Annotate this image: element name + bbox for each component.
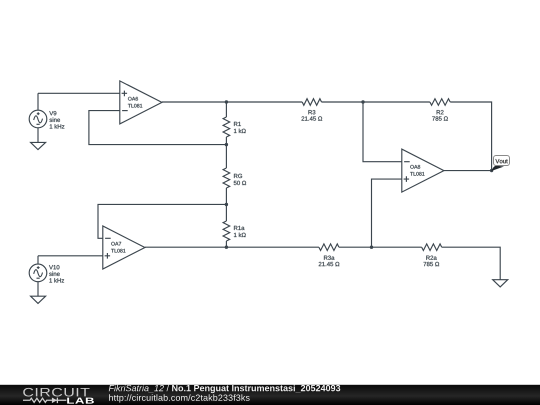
label R2 785 Ohm xyxy=(432,110,448,121)
op-amp OA7 xyxy=(103,226,145,269)
wire node R3-R2 down to OA8 inverting input xyxy=(363,102,402,162)
CircuitLab logo xyxy=(23,388,94,404)
wire R3a to R2a xyxy=(339,246,422,248)
junction node Vout xyxy=(490,169,493,172)
op-amp OA6 xyxy=(120,81,162,124)
wire V10 top vertical xyxy=(37,256,39,264)
wire OA7 output to R3a xyxy=(145,246,319,248)
label V10 sine 1 kHz xyxy=(49,265,64,282)
ground bottom right xyxy=(493,280,508,287)
wire OA6 output to R3 xyxy=(162,101,302,103)
wire OA7 inverting feedback xyxy=(98,204,226,238)
wire OA6 inverting feedback xyxy=(89,111,227,145)
resistor R1 xyxy=(223,102,230,145)
wire R2a to right corner down to ground xyxy=(442,247,500,280)
ground under V9 xyxy=(31,142,46,149)
label R3 21.45 Ohm xyxy=(302,110,323,121)
voltage source V9 xyxy=(29,110,47,128)
junction node RG / R1a / OA7 feedback xyxy=(225,203,228,206)
footer title text xyxy=(109,385,340,403)
ground under V10 xyxy=(31,296,46,303)
resistor R3a xyxy=(319,244,339,251)
resistor RG xyxy=(223,145,230,205)
label OA8 TL081 xyxy=(410,165,424,176)
label R2a 785 Ohm xyxy=(424,256,440,267)
wire V9 to OA6 noninverting input xyxy=(38,92,120,94)
wire node R3a-R2a up to OA8 noninverting input xyxy=(372,179,402,247)
junction node R1 / RG / OA6 feedback xyxy=(225,143,228,146)
resistor R1a xyxy=(223,204,230,247)
wire OA8 output to Vout node xyxy=(444,170,492,172)
junction node OA7 output / R1a xyxy=(225,246,228,249)
voltage source V10 xyxy=(29,264,47,282)
resistor R3 xyxy=(302,99,321,106)
resistor R2a xyxy=(422,244,442,251)
wire V9 bottom to ground xyxy=(37,128,39,143)
resistor R2 xyxy=(430,99,450,106)
junction node R3a / R2a / OA8 noninverting xyxy=(370,246,373,249)
wire V10 bottom to ground xyxy=(37,282,39,297)
wire V10 to OA7 noninverting input xyxy=(38,255,103,257)
label R3a 21.45 Ohm xyxy=(319,256,340,267)
junction node R3 / R2 / OA8 inverting xyxy=(361,100,364,103)
wire R3 to R2 xyxy=(322,101,430,103)
label R1 1 kOhm xyxy=(234,122,246,133)
label R1a 1 kOhm xyxy=(234,226,246,237)
wire V9 top vertical xyxy=(37,93,39,110)
label OA6 TL081 xyxy=(128,97,142,108)
label OA7 TL081 xyxy=(111,242,125,253)
node Vout flag xyxy=(491,156,509,172)
label RG 50 Ohm xyxy=(234,174,246,185)
junction node OA6 output / R1 xyxy=(225,100,228,103)
op-amp OA8 xyxy=(402,149,444,192)
label V9 sine 1 kHz xyxy=(49,111,64,128)
wire R2 to right corner down to Vout node xyxy=(450,102,491,171)
